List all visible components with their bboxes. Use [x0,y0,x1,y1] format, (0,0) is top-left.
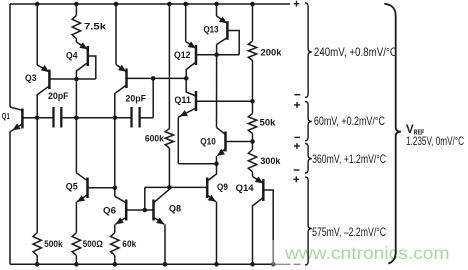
svg-text:Q12: Q12 [174,50,191,61]
svg-text:500Ω: 500Ω [83,239,103,250]
svg-text:360mV, +1.2mV/°C: 360mV, +1.2mV/°C [312,153,386,166]
svg-text:300k: 300k [260,156,281,167]
svg-text:Q9: Q9 [217,182,228,193]
svg-text:200k: 200k [261,48,283,59]
svg-text:20pF: 20pF [48,91,69,102]
svg-text:7.5k: 7.5k [84,21,107,32]
svg-text:Q10: Q10 [200,137,216,148]
svg-text:Q11: Q11 [174,95,191,106]
svg-text:60k: 60k [122,239,137,250]
svg-text:500k: 500k [44,239,63,250]
svg-text:Q6: Q6 [103,205,116,216]
svg-text:600k: 600k [145,133,165,144]
svg-text:240mV, +0.8mV/°C: 240mV, +0.8mV/°C [314,46,397,59]
svg-text:50k: 50k [260,118,277,129]
svg-text:Q8: Q8 [169,204,181,215]
svg-text:575mV, –2.2mV/°C: 575mV, –2.2mV/°C [312,226,386,239]
svg-text:Q5: Q5 [66,182,79,193]
svg-text:20pF: 20pF [126,94,147,105]
svg-text:Q1: Q1 [2,111,10,121]
svg-text:1.235V, 0mV/°C: 1.235V, 0mV/°C [406,134,464,148]
svg-text:Q13: Q13 [204,25,219,36]
svg-text:Q3: Q3 [25,73,37,84]
svg-text:60mV, +0.2mV/°C: 60mV, +0.2mV/°C [314,115,385,128]
svg-text:Q4: Q4 [66,50,78,61]
svg-text:Q14: Q14 [236,183,255,194]
